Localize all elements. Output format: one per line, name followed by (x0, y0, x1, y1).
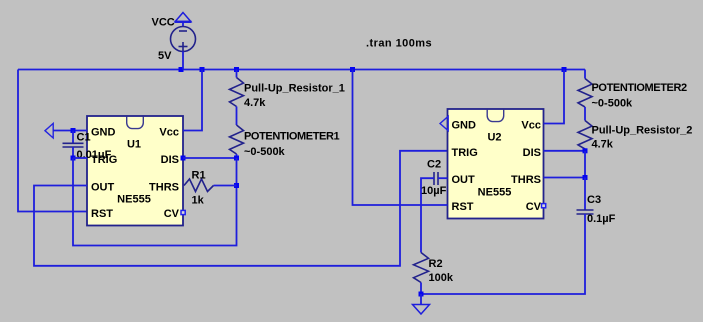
node U1 Vcc riser junction (200, 67, 205, 72)
wire ground stub (420, 294, 422, 305)
svg-text:DIS: DIS (161, 154, 179, 166)
resistor R1 (184, 179, 214, 192)
svg-text:4.7k: 4.7k (244, 97, 266, 109)
svg-text:5V: 5V (158, 50, 172, 62)
wire C3 bottom to ground run (421, 214, 585, 294)
node VCC source bottom junction (179, 67, 184, 72)
voltage source minus sign (179, 30, 187, 32)
wire U2 RST riser from rail (353, 70, 448, 206)
svg-text:RST: RST (452, 201, 474, 213)
svg-text:OUT: OUT (452, 174, 476, 186)
node U2 RST riser junction (350, 67, 355, 72)
wire DIS1 (183, 157, 237, 159)
svg-text:0.01uF: 0.01uF (77, 149, 112, 161)
wire C2 left to R2 column (421, 178, 434, 252)
svg-text:10µF: 10µF (421, 185, 447, 197)
svg-text:NE555: NE555 (117, 194, 151, 206)
svg-text:Vcc: Vcc (159, 127, 179, 139)
svg-text:0.1µF: 0.1µF (587, 213, 616, 225)
capacitor C3 plates (577, 210, 594, 214)
net flag arrow at U2 GND (440, 116, 448, 130)
node THRS1 junction (234, 183, 239, 188)
node U2 Vcc riser junction (562, 67, 567, 72)
wire TRIG1 (73, 157, 87, 159)
net flag arrow at C1/GND1 (45, 123, 53, 138)
node THRS2 junction (583, 175, 588, 180)
resistor POTENTIOMETER2 (578, 70, 592, 121)
wire C3 top stub (584, 178, 586, 211)
wire pot column down (73, 158, 237, 246)
wire OUT1 loop to U2 TRIG (34, 151, 448, 266)
svg-text:Pull-Up_Resistor_2: Pull-Up_Resistor_2 (592, 125, 693, 137)
svg-text:NE555: NE555 (478, 187, 512, 199)
svg-text:1k: 1k (192, 195, 205, 207)
svg-text:Pull-Up_Resistor_1: Pull-Up_Resistor_1 (244, 83, 345, 95)
svg-text:OUT: OUT (91, 182, 115, 194)
svg-text:POTENTIOMETER2: POTENTIOMETER2 (592, 82, 688, 94)
svg-text:GND: GND (452, 120, 477, 132)
resistor Pull-Up_Resistor_2 (578, 121, 592, 151)
svg-text:POTENTIOMETER1: POTENTIOMETER1 (244, 131, 340, 143)
resistor R2 (414, 253, 429, 295)
node ground junction (419, 292, 424, 297)
IC U2 NE555 body (448, 109, 544, 219)
svg-text:~0-500k: ~0-500k (244, 146, 286, 158)
wire U2 Vcc riser (544, 70, 565, 124)
voltage source V1 circle (171, 27, 196, 52)
wire left rail down to U1 RST (18, 70, 87, 212)
svg-text:.tran 100ms: .tran 100ms (366, 38, 432, 50)
svg-text:TRIG: TRIG (452, 147, 478, 159)
svg-text:GND: GND (91, 127, 116, 139)
svg-text:C3: C3 (587, 194, 601, 206)
node TRIG1 junction (71, 156, 76, 161)
wire R1 right (214, 185, 237, 187)
svg-text:Vcc: Vcc (521, 120, 541, 132)
svg-text:RST: RST (91, 208, 113, 220)
wire C1 bottom stub (72, 147, 74, 158)
voltage source plus sign (179, 42, 188, 51)
svg-text:100k: 100k (429, 272, 454, 284)
wire source bottom stub (182, 52, 184, 70)
svg-text:CV: CV (164, 208, 180, 220)
VCC net flag (175, 13, 192, 28)
wire DIS2 (544, 150, 586, 152)
svg-text:R1: R1 (192, 170, 206, 182)
resistor Pull-Up_Resistor_1 (230, 70, 244, 126)
svg-text:C2: C2 (427, 159, 441, 171)
svg-text:U2: U2 (487, 132, 501, 144)
svg-text:THRS: THRS (149, 182, 179, 194)
ground symbol (413, 305, 430, 315)
wire C1 top stub (72, 131, 74, 144)
resistor POTENTIOMETER1 (230, 125, 244, 158)
wire OUT2 to C2 (438, 177, 448, 179)
svg-text:VCC: VCC (152, 17, 175, 29)
node DIS1 pin junction (181, 156, 186, 161)
U2 CV unconnected pin square (542, 204, 546, 208)
capacitor C2 plates (434, 172, 438, 185)
node C1 top junction (71, 128, 76, 133)
wire top VCC rail (18, 69, 585, 71)
wire GND1 to U1 (53, 130, 87, 132)
svg-text:THRS: THRS (511, 174, 541, 186)
node DIS1 pot junction (234, 156, 239, 161)
node DIS2 junction (583, 148, 588, 153)
wire U1 Vcc riser (183, 70, 202, 131)
svg-text:DIS: DIS (523, 147, 541, 159)
svg-text:U1: U1 (127, 139, 141, 151)
IC U1 NE555 body (87, 116, 183, 226)
svg-text:CV: CV (526, 201, 542, 213)
svg-text:R2: R2 (429, 258, 443, 270)
svg-text:4.7k: 4.7k (592, 139, 614, 151)
svg-text:C1: C1 (77, 132, 91, 144)
U1 CV unconnected pin square (181, 210, 185, 214)
capacitor C1 plates (63, 143, 84, 147)
node pull-up resistor 1 top junction (234, 67, 239, 72)
wire pot2 column to THRS2 (584, 151, 586, 178)
svg-text:~0-500k: ~0-500k (592, 98, 634, 110)
wire THRS2 (544, 177, 586, 179)
